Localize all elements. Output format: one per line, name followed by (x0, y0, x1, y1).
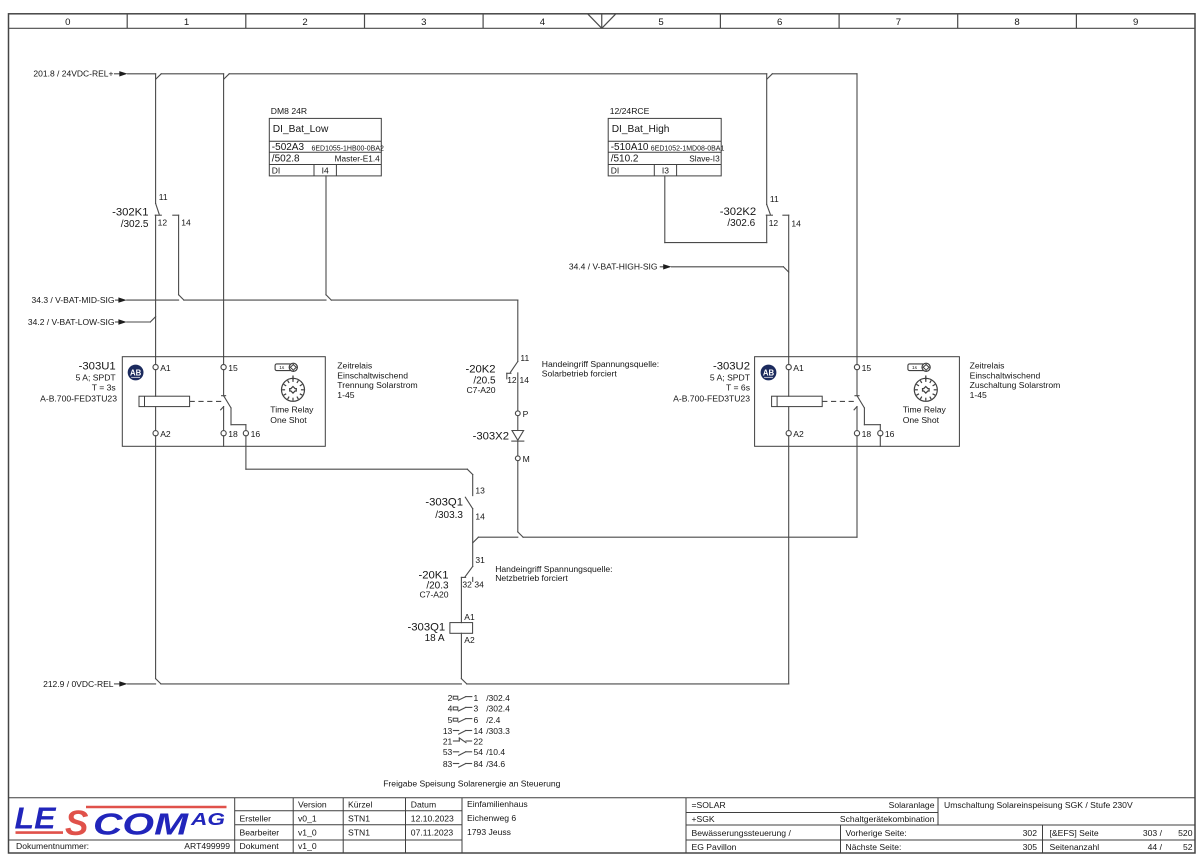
svg-text:-20K2: -20K2 (465, 364, 495, 376)
wire 20K1 pin 32 down to 303Q1 coil A1 (460, 577, 462, 622)
connector -303X2 terminal P (515, 409, 528, 419)
svg-text:Freigabe Speisung Solarenergie: Freigabe Speisung Solarenergie an Steuer… (383, 779, 560, 789)
svg-text:T = 6s: T = 6s (726, 383, 750, 393)
svg-text:C7-A20: C7-A20 (466, 385, 495, 395)
svg-text:54: 54 (474, 747, 484, 757)
svg-text:AG: AG (190, 809, 226, 829)
wire 303Q1 A2 down to 0VDC rail (461, 633, 466, 684)
svg-text:Seitenanzahl: Seitenanzahl (1050, 842, 1100, 852)
svg-text:M: M (523, 454, 530, 464)
303U1 AB logo (128, 365, 144, 381)
svg-text:=SOLAR: =SOLAR (692, 800, 726, 810)
svg-text:-302K1: -302K1 (112, 207, 148, 219)
svg-text:A1: A1 (160, 363, 171, 373)
wire 302K1 pin 12 down to 303U1 A1 (155, 215, 157, 364)
svg-text:6ED1052-1MD08-0BA1: 6ED1052-1MD08-0BA1 (651, 146, 725, 153)
svg-text:Dokumentnummer:: Dokumentnummer: (16, 841, 89, 851)
svg-text:07.11.2023: 07.11.2023 (411, 827, 454, 837)
svg-text:Master-E1.4: Master-E1.4 (335, 154, 381, 164)
svg-text:-303Q1: -303Q1 (408, 622, 446, 634)
svg-text:/2.4: /2.4 (486, 715, 500, 725)
svg-text:31: 31 (475, 555, 485, 565)
svg-text:1: 1 (474, 693, 479, 703)
svg-text:Datum: Datum (411, 799, 436, 809)
svg-text:DI_Bat_Low: DI_Bat_Low (273, 124, 329, 135)
303U2 terminal 15 (854, 363, 871, 373)
svg-text:2: 2 (302, 17, 307, 28)
svg-text:Eichenweg 6: Eichenweg 6 (467, 813, 516, 823)
wire 303U2 18 down to junction rail (523, 436, 857, 537)
svg-text:/510.2: /510.2 (611, 154, 639, 165)
svg-text:34.3 / V-BAT-MID-SIG: 34.3 / V-BAT-MID-SIG (32, 295, 115, 305)
svg-text:STN1: STN1 (348, 813, 370, 823)
svg-text:5 A; SPDT: 5 A; SPDT (76, 372, 117, 382)
svg-text:13: 13 (475, 485, 485, 495)
coil -303Q1 (408, 612, 475, 645)
303U1 terminal 15 (221, 363, 238, 373)
svg-text:84: 84 (474, 759, 484, 769)
svg-text:Zuschaltung Solarstrom: Zuschaltung Solarstrom (970, 380, 1061, 390)
svg-text:34.4 / V-BAT-HIGH-SIG: 34.4 / V-BAT-HIGH-SIG (569, 262, 658, 272)
svg-text:22: 22 (474, 736, 484, 746)
wire 0VDC rail (128, 683, 789, 685)
svg-text:5: 5 (448, 715, 453, 725)
303U1 dashed actuator link (190, 400, 222, 402)
title block grid (9, 798, 1196, 853)
303U2 function text (903, 404, 947, 425)
303U1 right description (337, 360, 417, 400)
node V-BAT-MID-SIG arrow (32, 295, 127, 305)
svg-text:4: 4 (540, 17, 546, 28)
wire V-BAT-LOW-SIG (127, 317, 156, 322)
svg-text:18: 18 (862, 429, 872, 439)
svg-text:14: 14 (791, 219, 801, 229)
svg-text:S: S (65, 804, 88, 843)
ruler center marker (588, 14, 616, 28)
svg-text:Slave-I3: Slave-I3 (689, 154, 720, 164)
svg-text:15: 15 (228, 363, 238, 373)
connector -303X2 diode symbol (473, 416, 524, 456)
wire 303U2 A2 down to 0VDC rail end (788, 436, 790, 684)
svg-text:18 A: 18 A (425, 633, 445, 644)
wire 24VDC rail (128, 74, 857, 79)
svg-text:Einschaltwischend: Einschaltwischend (337, 370, 408, 380)
connector -303X2 terminal M (515, 454, 529, 464)
svg-text:EG Pavillon: EG Pavillon (692, 842, 737, 852)
svg-text:DI: DI (611, 166, 620, 176)
svg-text:AB: AB (763, 368, 775, 377)
svg-text:[&EFS] Seite: [&EFS] Seite (1050, 828, 1099, 838)
label Handeingriff Netzbetrieb (495, 564, 612, 583)
303U1 changeover contact 15-18-16 (221, 370, 246, 431)
svg-text:-303U1: -303U1 (79, 361, 116, 373)
contact -20K2 (11/12/14) (465, 353, 529, 395)
svg-text:C7-A20: C7-A20 (419, 590, 448, 600)
svg-text:32: 32 (462, 580, 472, 590)
svg-text:1-45: 1-45 (337, 390, 354, 400)
svg-text:Einschaltwischend: Einschaltwischend (970, 370, 1041, 380)
PLC box DI_Bat_High (-510A10) (608, 106, 724, 176)
svg-text:/502.8: /502.8 (272, 154, 300, 165)
svg-text:P: P (523, 409, 529, 419)
svg-text:12: 12 (158, 217, 168, 227)
303U2 dashed actuator link (822, 400, 855, 402)
svg-text:14: 14 (475, 511, 485, 521)
svg-text:9: 9 (1133, 17, 1138, 28)
svg-text:A1: A1 (793, 363, 804, 373)
svg-text:5 A; SPDT: 5 A; SPDT (710, 372, 751, 382)
svg-text:302: 302 (1023, 828, 1038, 838)
time relay -303U2 box (755, 357, 960, 447)
svg-text:201.8 / 24VDC-REL+: 201.8 / 24VDC-REL+ (33, 69, 113, 79)
svg-text:One Shot: One Shot (270, 415, 307, 425)
contact -302K2 (11/12/14) (720, 194, 801, 229)
svg-text:Umschaltung Solareinspeisung S: Umschaltung Solareinspeisung SGK / Stufe… (944, 800, 1133, 810)
node 0VDC-REL source arrow (43, 679, 128, 689)
303Q1 contact cross-reference list (448, 693, 511, 703)
wire junction horizontal left segment (473, 537, 518, 543)
svg-text:A2: A2 (793, 429, 804, 439)
svg-text:53: 53 (443, 747, 453, 757)
title block texts right (692, 800, 1193, 852)
svg-text:11: 11 (770, 194, 779, 204)
303U1 terminal 16 (243, 429, 260, 439)
svg-text:/302.4: /302.4 (486, 693, 510, 703)
svg-text:Vorherige Seite:: Vorherige Seite: (846, 828, 907, 838)
svg-text:I3: I3 (662, 166, 669, 176)
svg-text:Ersteller: Ersteller (240, 813, 272, 823)
wire 302K1 pin 14 down to V-BAT-MID-SIG (179, 215, 184, 300)
svg-text:T = 3s: T = 3s (92, 383, 116, 393)
svg-text:7: 7 (896, 17, 901, 28)
svg-text:Kürzel: Kürzel (348, 799, 372, 809)
svg-text:1: 1 (184, 17, 189, 28)
label Handeingriff Solarbetrieb (542, 359, 659, 378)
title block texts left (16, 799, 528, 851)
svg-text:One Shot: One Shot (903, 415, 940, 425)
svg-text:Version: Version (298, 799, 327, 809)
svg-text:3: 3 (474, 704, 479, 714)
svg-text:4: 4 (448, 704, 453, 714)
303U1 left labels (40, 361, 117, 404)
303U2 terminal A1 (786, 363, 804, 373)
wire from DI_Bat_Low I4 to V-BAT-MID-SIG (326, 176, 331, 300)
svg-text:6: 6 (777, 17, 782, 28)
svg-text:Time Relay: Time Relay (903, 404, 947, 414)
303U1 coil (139, 370, 190, 431)
svg-text:v0_1: v0_1 (298, 813, 317, 823)
svg-text:Nächste Seite:: Nächste Seite: (846, 842, 902, 852)
svg-text:34.2 / V-BAT-LOW-SIG: 34.2 / V-BAT-LOW-SIG (28, 317, 115, 327)
svg-text:COM: COM (93, 806, 190, 841)
svg-text:18: 18 (228, 429, 238, 439)
svg-text:6: 6 (474, 715, 479, 725)
wire drop to 303U1 pin 15 (223, 74, 225, 365)
wire M down to junction (518, 461, 523, 538)
svg-text:13: 13 (443, 726, 453, 736)
svg-text:/302.4: /302.4 (486, 704, 510, 714)
svg-text:/302.5: /302.5 (121, 219, 149, 230)
svg-text:Time Relay: Time Relay (270, 404, 314, 414)
wire 20K2 pin 14 to connector P (517, 373, 519, 411)
svg-text:1s: 1s (279, 365, 285, 371)
svg-text:3: 3 (421, 17, 426, 28)
svg-text:8: 8 (1014, 17, 1019, 28)
303U1 function text (270, 404, 314, 425)
svg-text:0: 0 (65, 17, 70, 28)
svg-text:Bewässerungssteuerung /: Bewässerungssteuerung / (692, 828, 792, 838)
svg-text:ART499999: ART499999 (184, 841, 230, 851)
svg-text:-303U2: -303U2 (713, 361, 750, 373)
303U1 terminal A2 (153, 429, 171, 439)
svg-text:12: 12 (769, 218, 779, 228)
303U2 terminal A2 (786, 429, 804, 439)
node 24VDC-REL+ source arrow (33, 69, 127, 79)
303U1 terminal A1 (153, 363, 171, 373)
svg-text:16: 16 (885, 429, 895, 439)
svg-text:/303.3: /303.3 (486, 726, 510, 736)
svg-text:44 /: 44 / (1148, 842, 1163, 852)
svg-text:-502A3: -502A3 (272, 142, 305, 153)
wire 302K2 pin 14 down to 303U2 A1 (788, 215, 790, 364)
svg-text:+SGK: +SGK (692, 814, 715, 824)
303U2 right description (970, 360, 1061, 400)
svg-text:303 /: 303 / (1143, 828, 1163, 838)
svg-text:52: 52 (1183, 842, 1193, 852)
ruler band (9, 14, 1196, 28)
svg-text:Schaltgerätekombination: Schaltgerätekombination (840, 814, 935, 824)
svg-text:I4: I4 (322, 166, 329, 176)
svg-text:Netzbetrieb forciert: Netzbetrieb forciert (495, 573, 568, 583)
svg-text:83: 83 (443, 759, 453, 769)
svg-text:A1: A1 (464, 612, 475, 622)
svg-text:/303.3: /303.3 (435, 510, 463, 521)
svg-text:-302K2: -302K2 (720, 206, 756, 218)
svg-text:520: 520 (1178, 828, 1193, 838)
wire V-BAT-HIGH-SIG (672, 267, 789, 272)
svg-text:DI_Bat_High: DI_Bat_High (612, 124, 670, 135)
303U1 terminal 18 (221, 429, 238, 446)
svg-text:STN1: STN1 (348, 827, 370, 837)
contact -20K1 (31/32/34) (418, 555, 485, 600)
svg-text:-510A10: -510A10 (611, 142, 649, 153)
svg-text:/302.6: /302.6 (727, 218, 755, 229)
svg-text:v1_0: v1_0 (298, 827, 317, 837)
svg-text:1s: 1s (912, 365, 918, 371)
303U1 timer icon (275, 363, 297, 371)
svg-text:2: 2 (448, 693, 453, 703)
303U2 left labels (673, 361, 751, 404)
svg-text:14: 14 (474, 726, 484, 736)
svg-text:16: 16 (251, 429, 261, 439)
wire drop to 303U2 pin 15 (856, 74, 858, 365)
node V-BAT-LOW-SIG arrow (28, 317, 127, 327)
svg-text:14: 14 (520, 375, 530, 385)
303U2 timer dial (914, 376, 937, 402)
wire drop to 302K1 pin 11 (155, 74, 157, 204)
svg-text:Zeitrelais: Zeitrelais (337, 360, 372, 370)
303U2 timer icon (908, 363, 930, 371)
wire 303U1 A2 down to 0VDC rail (156, 436, 161, 684)
303U2 terminal 18 (854, 429, 871, 439)
time relay -303U1 box (122, 357, 325, 447)
svg-text:11: 11 (520, 353, 529, 363)
svg-text:1-45: 1-45 (970, 390, 987, 400)
svg-text:Zeitrelais: Zeitrelais (970, 360, 1005, 370)
303U2 terminal 16 (878, 429, 895, 446)
svg-text:Bearbeiter: Bearbeiter (240, 827, 280, 837)
svg-text:5: 5 (658, 17, 663, 28)
svg-text:1793 Jeuss: 1793 Jeuss (467, 827, 511, 837)
svg-text:/10.4: /10.4 (486, 747, 505, 757)
svg-text:Trennung Solarstrom: Trennung Solarstrom (337, 380, 417, 390)
svg-text:DM8 24R: DM8 24R (271, 106, 307, 116)
svg-text:12.10.2023: 12.10.2023 (411, 813, 454, 823)
303U2 AB logo (761, 365, 777, 381)
svg-text:21: 21 (443, 736, 453, 746)
svg-text:-303X2: -303X2 (473, 430, 509, 442)
svg-text:Solaranlage: Solaranlage (889, 800, 935, 810)
wire drop to 302K2 pin 11 (766, 74, 768, 205)
svg-text:LE: LE (15, 801, 57, 836)
PLC box DI_Bat_Low (-502A3) (269, 106, 384, 176)
svg-text:11: 11 (159, 192, 168, 202)
svg-text:12/24RCE: 12/24RCE (610, 106, 650, 116)
svg-text:A-B.700-FED3TU23: A-B.700-FED3TU23 (673, 393, 750, 403)
node V-BAT-HIGH-SIG arrow (569, 262, 672, 272)
svg-text:Solarbetrieb forciert: Solarbetrieb forciert (542, 369, 618, 379)
wire 303U1 16 to 303Q1 contact 13 (246, 436, 473, 475)
svg-text:AB: AB (130, 368, 142, 377)
contact -303Q1 13/14 (425, 475, 485, 567)
svg-text:212.9 / 0VDC-REL: 212.9 / 0VDC-REL (43, 679, 114, 689)
svg-text:12: 12 (507, 375, 517, 385)
svg-text:/34.6: /34.6 (486, 759, 505, 769)
303U2 changeover contact 15-18-16 (854, 370, 880, 431)
svg-text:A-B.700-FED3TU23: A-B.700-FED3TU23 (40, 393, 117, 403)
303U2 coil (772, 370, 823, 431)
svg-text:6ED1055-1HB00-0BA2: 6ED1055-1HB00-0BA2 (312, 146, 384, 153)
LESCOM AG logo (15, 801, 227, 844)
label Freigabe (383, 779, 560, 789)
svg-text:DI: DI (272, 166, 281, 176)
contact -302K1 (11/12/14) (112, 192, 191, 230)
svg-text:305: 305 (1023, 842, 1038, 852)
svg-text:A2: A2 (464, 635, 475, 645)
svg-text:34: 34 (474, 580, 484, 590)
svg-text:Einfamilienhaus: Einfamilienhaus (467, 799, 528, 809)
svg-text:v1_0: v1_0 (298, 841, 317, 851)
svg-text:Dokument: Dokument (240, 841, 280, 851)
wire from DI_Bat_High I3 to 302K2 pin 12 (665, 176, 767, 243)
svg-text:-303Q1: -303Q1 (425, 497, 463, 509)
wire V-BAT-MID-SIG (127, 300, 518, 361)
303U1 timer dial (282, 376, 305, 402)
svg-text:14: 14 (181, 217, 191, 227)
svg-text:15: 15 (862, 363, 872, 373)
svg-text:A2: A2 (160, 429, 171, 439)
